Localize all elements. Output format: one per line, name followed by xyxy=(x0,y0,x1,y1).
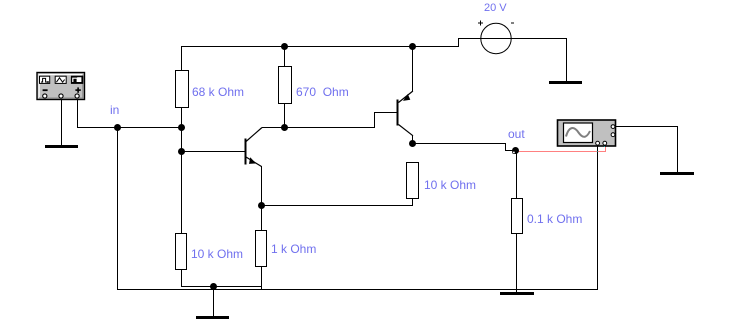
wire out to 0.1k xyxy=(516,151,517,199)
wire 670 bottom xyxy=(284,104,285,128)
wire red probe xyxy=(516,146,606,152)
wire 1k top xyxy=(261,205,262,230)
svg-text:10 k Ohm: 10 k Ohm xyxy=(424,178,476,192)
wire out row xyxy=(413,143,506,144)
wire out step xyxy=(505,143,515,151)
wire 68k bottom xyxy=(181,108,182,127)
wire right ground down xyxy=(677,126,678,172)
resistor 68k xyxy=(176,71,189,108)
wire resistor bottom row xyxy=(181,286,262,287)
wire 1k bottom xyxy=(261,266,262,287)
node bias top dot xyxy=(178,124,185,131)
resistor 1k xyxy=(256,231,267,267)
wire Q2 collector top xyxy=(412,46,413,91)
ground G5 scope xyxy=(660,172,694,175)
wire 0.1k bottom xyxy=(516,233,517,293)
ground G2 function generator xyxy=(45,145,78,148)
wire ground rail xyxy=(117,289,598,290)
wire fg plus terminal xyxy=(77,98,78,128)
ground G3 bottom left xyxy=(196,316,229,319)
wire step at 1k xyxy=(261,286,262,290)
svg-text:20 V: 20 V xyxy=(484,2,507,14)
wire 670 top xyxy=(284,46,285,66)
svg-text:10 k Ohm: 10 k Ohm xyxy=(191,247,243,261)
wire Q1 collector row xyxy=(262,127,375,128)
wire top rail xyxy=(181,46,458,47)
svg-text:1 k Ohm: 1 k Ohm xyxy=(271,242,316,256)
node 670 rail dot xyxy=(281,43,288,50)
wire bias column xyxy=(181,127,182,234)
wire ground tap xyxy=(213,286,214,317)
oscilloscope SC1 xyxy=(558,120,616,146)
wire source right down xyxy=(566,38,567,82)
svg-text:0.1 k Ohm: 0.1 k Ohm xyxy=(527,212,582,226)
node Q1 base dot xyxy=(178,148,185,155)
svg-text:out: out xyxy=(508,127,525,141)
wire Q2 emitter down xyxy=(412,135,413,144)
node Q2 rail dot xyxy=(409,43,416,50)
resistor 10k left xyxy=(176,234,187,270)
wire scope right xyxy=(616,126,678,127)
node in dot xyxy=(114,124,121,131)
function generator FG1 xyxy=(37,73,85,100)
wire Q1 emitter down xyxy=(261,166,262,206)
wire 10k left bottom xyxy=(181,269,182,287)
wire 68k top xyxy=(181,46,182,70)
node Q2 emitter dot xyxy=(409,140,416,147)
svg-text:68 k Ohm: 68 k Ohm xyxy=(192,85,244,99)
wire in row xyxy=(77,127,182,128)
transistor Q2 xyxy=(397,91,414,136)
node ground tap dot xyxy=(210,283,217,290)
wire emitter row xyxy=(261,205,413,206)
wire Q1 base xyxy=(181,151,245,152)
resistor 10k mid xyxy=(407,163,419,199)
node scope probe crossing pixel xyxy=(597,151,598,152)
resistor 0.1k xyxy=(512,199,523,234)
resistor 670 xyxy=(279,67,292,104)
wire in column down xyxy=(117,127,118,290)
node Q1 collector dot xyxy=(281,124,288,131)
ground G1 top right xyxy=(549,81,582,84)
wire source left step up xyxy=(458,38,566,47)
ground G4 below 0.1k xyxy=(500,292,534,295)
node scope ground terminal pixel xyxy=(604,146,605,147)
wire fg common terminal xyxy=(61,98,62,145)
node out dot xyxy=(512,147,519,154)
transistor Q1 xyxy=(245,128,263,167)
wire scope bottom column xyxy=(597,145,598,290)
svg-text:in: in xyxy=(110,103,119,117)
svg-text:670 Ohm: 670 Ohm xyxy=(296,85,349,99)
wire Q2 base step xyxy=(374,112,397,128)
voltage source V1 xyxy=(478,21,514,54)
node Q1 emitter junction dot xyxy=(258,202,265,209)
wire 10k mid bottom xyxy=(412,198,413,206)
